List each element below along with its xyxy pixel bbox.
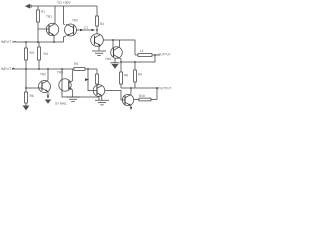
- collector load resistor chain x97: [96, 69, 98, 87]
- resistor R9 (x135): [134, 62, 136, 88]
- svg-text:R10: R10: [139, 94, 145, 98]
- ground bars under Q3: [92, 50, 106, 52]
- Q6 emitter short down: [130, 106, 132, 110]
- svg-text:TR3: TR3: [57, 70, 63, 74]
- wire input2 long: [15, 68, 97, 70]
- wire QR collector up: [72, 69, 74, 81]
- ground bars under QR: [66, 96, 80, 98]
- transistor Q6: [122, 94, 133, 105]
- svg-text:R5: R5: [74, 62, 78, 66]
- junction dot: [25, 41, 27, 43]
- resistor R6 (x26 bottom): [25, 88, 27, 105]
- wire QL collector up: [47, 69, 49, 80]
- wire Q5 base column x88: [87, 69, 89, 91]
- wire y88 to OUT2: [121, 87, 159, 89]
- inductor L1 output: [135, 54, 160, 56]
- svg-text:R4: R4: [44, 52, 48, 56]
- svg-text:OUTPUT 1: OUTPUT 1: [158, 52, 172, 56]
- transistor Q2: [65, 24, 77, 36]
- transistor Q4: [112, 40, 114, 49]
- ground bars under Q5: [95, 99, 109, 101]
- wire Q2 collector to rail: [64, 6, 65, 25]
- Q6 collector up: [130, 88, 132, 94]
- transistor QL (TR2): [38, 80, 50, 92]
- wire bias column down: [37, 29, 39, 42]
- Q4 collector up: [119, 40, 121, 47]
- resistor chain to Q3 (x97): [96, 6, 98, 34]
- svg-text:R1: R1: [41, 10, 45, 14]
- wire QL emitter down + arrow: [47, 92, 49, 98]
- resistor R8 (x121): [120, 62, 122, 88]
- svg-text:R8: R8: [124, 73, 128, 77]
- wire QR emitter down: [72, 90, 74, 97]
- resistor R5 horizontal on input2 wire: [74, 68, 85, 71]
- junction out1: [154, 54, 156, 56]
- resistor R3 (x26): [25, 42, 27, 69]
- svg-text:INPUT 1: INPUT 1: [1, 40, 14, 44]
- svg-text:L1: L1: [140, 49, 144, 53]
- ground arrow left end of rail: [25, 4, 30, 9]
- Q4 emitter right down to y62 wire: [119, 58, 121, 62]
- svg-text:0V RAIL: 0V RAIL: [55, 102, 67, 106]
- transistor QR (TR3): [59, 79, 71, 91]
- wire Q3 right to output column: [103, 40, 135, 55]
- wire x26 column down to QL base: [26, 69, 42, 88]
- resistor R2 between inputs (x39): [38, 42, 40, 69]
- svg-text:R9: R9: [138, 72, 142, 76]
- wire input2 drop down through QR to ground run: [62, 69, 99, 100]
- svg-text:TR2: TR2: [40, 72, 46, 76]
- svg-text:R2: R2: [100, 22, 104, 26]
- Q4 emitter mid down to ground arrow: [114, 58, 116, 63]
- emitter to ground: [99, 46, 101, 51]
- emitter down to ground: [101, 96, 103, 100]
- svg-text:TR2: TR2: [72, 18, 78, 22]
- wire input1: [16, 41, 63, 43]
- svg-text:R6: R6: [29, 94, 33, 98]
- svg-text:TR6: TR6: [105, 57, 111, 61]
- junction dots input2: [25, 68, 27, 70]
- wire Q5 to Q6 base: [105, 91, 125, 101]
- Q6 right wire through box: [134, 88, 157, 100]
- junction dot: [53, 41, 55, 43]
- wire Q2 base to Q3 collector node: [76, 29, 95, 31]
- transistor Q3 (TR4): [91, 34, 104, 47]
- wire Q1 emitter down: [53, 35, 55, 42]
- svg-text:R3: R3: [30, 51, 34, 55]
- base wire: [88, 90, 97, 92]
- transistor Q1: [46, 23, 58, 35]
- ground arrow under QL: [45, 99, 51, 103]
- transistor Q5: [93, 85, 105, 97]
- node bias tap wire to Q1 base: [38, 28, 49, 30]
- wire Q1 collector to rail: [54, 6, 56, 24]
- arrow into base column: [85, 78, 89, 81]
- svg-text:C1: C1: [84, 26, 88, 30]
- ground arrow below R6: [23, 105, 30, 110]
- svg-text:TO +30V: TO +30V: [57, 1, 71, 5]
- arrow on wire: [80, 29, 84, 31]
- svg-text:OUTPUT 2: OUTPUT 2: [158, 86, 172, 90]
- resistor R1 top bias: [37, 6, 39, 29]
- wire Q2 emitter down to input wire: [64, 36, 66, 42]
- svg-text:TR1: TR1: [46, 15, 52, 19]
- top supply rail: [30, 5, 97, 7]
- wire y62: [121, 55, 155, 62]
- junction dot: [37, 41, 39, 43]
